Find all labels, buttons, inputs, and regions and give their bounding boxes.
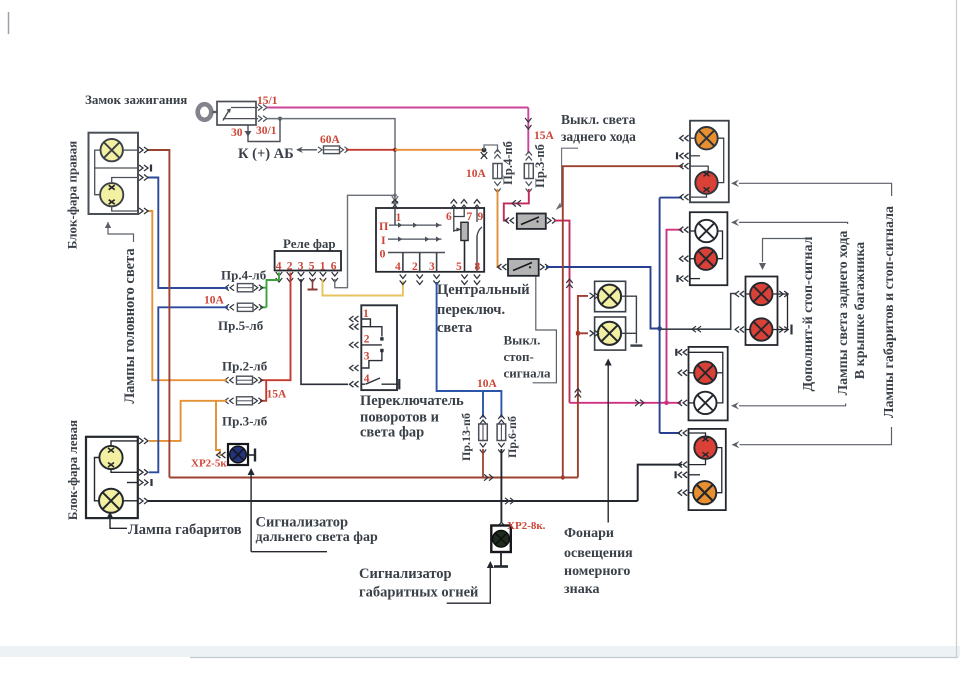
wire fuse Pr.13-pb to sidelight bus [482, 449, 484, 478]
tail3 internal wiring [689, 352, 723, 403]
svg-text:ХР2-8к.: ХР2-8к. [507, 520, 546, 532]
fuse Pr.6-pb [497, 415, 506, 454]
tail2 terminals [679, 227, 688, 282]
wire arrow to battery [296, 147, 317, 153]
column switch pin labels [363, 308, 370, 385]
wire relay pin4 green to fuses [260, 273, 279, 308]
svg-text:Пр.3-пб: Пр.3-пб [533, 144, 547, 188]
wire stop circuit vertical (blue) [657, 198, 662, 433]
tail4 internal wiring [689, 433, 722, 493]
svg-text:2: 2 [287, 260, 293, 272]
callout additional stop [759, 239, 806, 271]
fuse Pr.3-lb [225, 397, 263, 405]
tail1 stop/side lamp red [695, 171, 717, 193]
right headlamp internal wiring [95, 150, 138, 211]
svg-text:Фонари: Фонари [564, 526, 614, 541]
wire right headlamp position maroon [148, 150, 169, 478]
svg-text:4: 4 [395, 261, 401, 273]
central switch pin1 [395, 208, 402, 225]
left headlamp unit box [86, 437, 138, 518]
wire right headlamp low beam orange [148, 211, 227, 380]
svg-text:Пр.13-пб: Пр.13-пб [459, 413, 473, 461]
fuse 60A body [318, 146, 349, 154]
callout reverse lamps bottom [731, 402, 846, 409]
callout side-stop top [731, 180, 892, 196]
wire fuse Pr.6-pb down to indicator [500, 449, 502, 522]
wire +30 to lighting fuse (orange) [395, 149, 484, 151]
relay pin5 stub [308, 279, 318, 290]
position lamp pointer [110, 517, 127, 528]
svg-text:6: 6 [331, 260, 337, 272]
tail lamp unit 2 (left, in trunk lid) [690, 212, 728, 285]
reverse lamp feed maroon vertical [563, 166, 683, 477]
tail lamp unit 4 (right, in wing) [689, 429, 726, 510]
wire 30/1 gray feed to central switch pin 1 [267, 119, 395, 206]
tail4 terminals [678, 430, 687, 496]
wire stop to left tail lamp (blue) [660, 197, 682, 199]
licence plate lamp 1 [590, 281, 626, 311]
wire relay pin1 yellow from central switch pin4 [323, 279, 403, 296]
right headlamp dual filament lamp [100, 183, 123, 206]
svg-text:Лампы света заднего хода: Лампы света заднего хода [836, 231, 851, 396]
svg-text:Блок-фара правая: Блок-фара правая [65, 141, 80, 249]
wire fuse Pr.4-pb output (orange) down to stop switch [498, 189, 501, 267]
wire pink branch up to trunk reverse lamp [667, 230, 683, 403]
svg-text:поворотов и: поворотов и [360, 410, 439, 426]
svg-text:света: света [437, 320, 473, 336]
callout reverse lamps top [731, 219, 848, 226]
tail4 stop/side lamp red [694, 436, 716, 458]
ignition key symbol [198, 104, 217, 120]
svg-text:Переключатель: Переключатель [360, 393, 464, 409]
svg-text:освещения: освещения [564, 546, 633, 561]
wire stop switch output (blue) [546, 267, 660, 329]
ignition lock switch body [217, 102, 258, 126]
relay pin numbers [276, 260, 337, 272]
node 30/1 junction [278, 117, 282, 121]
wire to additional stop lamps [660, 294, 736, 333]
tail1 turn lamp orange [695, 127, 717, 149]
svg-text:Пр.4-лб: Пр.4-лб [221, 268, 267, 283]
wire right headlamp high beam blue [148, 178, 228, 289]
tail2 stop lamp red [695, 248, 717, 270]
svg-text:5: 5 [309, 260, 315, 272]
svg-text:Пр.5-лб: Пр.5-лб [218, 318, 264, 333]
add-stop internal wiring [746, 294, 788, 330]
fuse Pr.2-lb [225, 376, 263, 384]
wire left headlamp high beam blue [149, 307, 228, 472]
svg-text:30/1: 30/1 [256, 125, 277, 137]
central switch pin 9 and 8 [474, 200, 484, 273]
svg-text:габаритных огней: габаритных огней [359, 585, 478, 601]
svg-text:Пр.3-лб: Пр.3-лб [222, 414, 268, 429]
svg-text:7: 7 [467, 211, 473, 223]
tail2 internal wiring [690, 231, 723, 279]
svg-text:9: 9 [478, 211, 484, 223]
svg-text:10А: 10А [477, 378, 498, 390]
svg-text:4: 4 [276, 260, 282, 272]
wire relay pin2 red to fuse Pr.2-lb [260, 273, 291, 381]
wire jumper to fuse Pr.4-pb [484, 145, 498, 152]
licence plate lamp 2 [590, 317, 626, 350]
headlamp callout arrow [105, 222, 134, 242]
wire reverse lamps feed (pink) along bottom [570, 400, 682, 406]
svg-text:номерного: номерного [564, 564, 630, 579]
svg-text:Лампа габаритов: Лампа габаритов [128, 522, 242, 538]
tail lamp unit 3 (right, in trunk lid) [689, 347, 728, 421]
tail4 turn lamp orange [693, 481, 716, 504]
left headlamp position lamp [99, 489, 123, 513]
central switch pins 6 7 bracket and rheostat [446, 200, 473, 273]
fuse Pr.4-lb [225, 284, 263, 292]
svg-text:Сигнализатор: Сигнализатор [256, 515, 349, 531]
wire relay pin6 gray to +30 [335, 195, 395, 287]
svg-text:I: I [381, 233, 386, 247]
svg-text:дальнего света фар: дальнего света фар [256, 530, 378, 545]
wire red link fuse Pr.3-lb [260, 380, 266, 401]
tail3 stop lamp red [694, 362, 716, 384]
ground bus black lower [148, 498, 638, 504]
fuse Pr.4-pb (10A) [493, 150, 502, 193]
wire stop to right tail lamp (blue) [660, 432, 680, 434]
central switch pin1 terminal [392, 200, 398, 210]
left headlamp terminals [139, 438, 148, 504]
svg-text:2: 2 [364, 334, 370, 346]
svg-text:3: 3 [429, 261, 435, 273]
svg-text:15А: 15А [534, 130, 555, 142]
wire reverse switch output (crimson) [554, 221, 570, 403]
svg-text:10А: 10А [466, 168, 487, 180]
left headlamp internal wiring [95, 441, 138, 501]
svg-text:В крышке багажника: В крышке багажника [853, 242, 868, 379]
licence plate lamps callout [605, 359, 612, 523]
svg-text:переключ.: переключ. [437, 302, 505, 318]
svg-text:3: 3 [298, 260, 304, 272]
left headlamp dual filament lamp [99, 446, 122, 469]
column switch (turn/headlight) body [361, 305, 397, 390]
central switch row P [379, 219, 442, 233]
column switch terminals [350, 316, 359, 387]
svg-text:знака: знака [564, 582, 600, 597]
svg-text:Дополнит-й стоп-сигнал: Дополнит-й стоп-сигнал [801, 236, 816, 391]
scan artifact band bottom [0, 646, 960, 657]
svg-text:Выкл.: Выкл. [504, 333, 541, 348]
svg-text:К (+) АБ: К (+) АБ [238, 146, 294, 162]
sidelight indicator XP2-8k [491, 522, 511, 567]
svg-text:30: 30 [231, 127, 243, 139]
fuse Pr.5-lb [225, 303, 263, 311]
svg-text:Пр.6-пб: Пр.6-пб [505, 416, 519, 458]
central switch row I [381, 233, 442, 247]
right headlamp terminals [139, 147, 148, 214]
svg-text:Блок-фара левая: Блок-фара левая [65, 420, 80, 520]
svg-text:1: 1 [363, 308, 369, 320]
relay pin3 wire to column switch [301, 279, 348, 384]
svg-text:2: 2 [412, 261, 418, 273]
wire ground bus riser to tail4 [638, 465, 682, 501]
node +30 upper junction [393, 194, 397, 198]
svg-text:заднего хода: заднего хода [561, 129, 636, 144]
wire 15/1 magenta drop to fuse Pr.3-pb [525, 108, 531, 154]
svg-text:10А: 10А [204, 295, 225, 307]
relay Rele far body [275, 251, 341, 271]
licence plate lamps ground [621, 296, 642, 345]
svg-text:Сигнализатор: Сигнализатор [359, 566, 452, 582]
high beam indicator XP2-5k [217, 444, 256, 465]
node fuse tap with connector [481, 148, 487, 159]
svg-text:сигнала: сигнала [504, 366, 552, 381]
svg-text:1: 1 [320, 260, 326, 272]
tail2 reverse lamp white [695, 220, 717, 242]
wire orange branch to high-beam indicator [216, 401, 220, 455]
wire central pin3 blue to fuses [437, 282, 502, 418]
svg-text:1: 1 [396, 212, 402, 224]
stop switch label bracket [533, 277, 557, 383]
reverse light switch SA [505, 214, 556, 229]
right headlamp high beam lamp [101, 139, 123, 161]
wire 30 loop to 30/1 [245, 119, 281, 142]
svg-text:60А: 60А [320, 134, 341, 146]
right headlamp unit box [89, 133, 139, 214]
tail lamp unit 1 (left, in wing) [690, 121, 729, 203]
add-stop lamp 2 [750, 318, 772, 340]
svg-text:5: 5 [456, 261, 462, 273]
wire blue branch to fuse Pr.13-pb [482, 391, 484, 418]
add-stop terminals [735, 291, 788, 333]
sidelight bus maroon [169, 474, 578, 480]
svg-text:Лампы головного света: Лампы головного света [122, 248, 138, 404]
central switch pins 4 2 3 [395, 253, 437, 273]
svg-text:15/1: 15/1 [257, 95, 278, 107]
wire fuse Pr.3-lb orange to left headlamp [149, 401, 227, 441]
svg-text:Пр.2-лб: Пр.2-лб [222, 359, 268, 374]
svg-text:П: П [379, 219, 389, 233]
tail3 terminals [678, 349, 687, 406]
svg-text:6: 6 [446, 211, 452, 223]
svg-text:Пр.4-пб: Пр.4-пб [501, 141, 515, 185]
licence plate lamp feed maroon [575, 296, 588, 478]
svg-text:0: 0 [380, 247, 386, 261]
svg-text:Центральный: Центральный [437, 282, 530, 298]
fuse Pr.3-pb (reverse lights) [524, 152, 533, 193]
svg-text:Замок зажигания: Замок зажигания [85, 92, 187, 107]
svg-text:Реле фар: Реле фар [283, 236, 336, 251]
add-stop lamp 1 [750, 283, 772, 305]
column switch internal ladder [361, 319, 398, 384]
stop signal switch [498, 259, 550, 276]
wire Pr.3-pb to reverse switch (crimson) [504, 189, 529, 221]
svg-text:стоп-: стоп- [504, 349, 534, 364]
tail3 reverse lamp white [694, 392, 716, 414]
callout side-stop bottom [732, 427, 892, 448]
wire 15/1 magenta to reverse-light fuse [267, 107, 528, 109]
svg-text:Выкл. света: Выкл. света [561, 112, 636, 127]
tail1 internal wiring [690, 138, 724, 197]
sidelight indicator callout [447, 561, 494, 603]
additional stop signal unit [746, 277, 778, 346]
node +30 junction [393, 148, 397, 152]
svg-text:света фар: света фар [360, 425, 424, 441]
central switch row 0 [380, 247, 446, 261]
terminal 15/1 connector [258, 105, 267, 111]
svg-text:ХР2-5к: ХР2-5к [191, 458, 227, 470]
svg-text:15А: 15А [267, 389, 288, 401]
fuse Pr.13-pb [479, 415, 488, 454]
svg-text:8: 8 [475, 261, 481, 273]
wire 60A fuse to +30 node (red) [346, 149, 395, 151]
callout line to reverse switch [556, 148, 578, 210]
connector on reverse feed [566, 279, 572, 288]
central light switch body [376, 208, 484, 272]
high beam indicator callout [248, 468, 327, 552]
terminal 30/1 connector [258, 116, 267, 122]
tail1 terminals [680, 135, 689, 200]
central switch bottom terminals [400, 275, 481, 285]
relay pin terminals [276, 272, 338, 282]
svg-text:Лампы габаритов и стоп-сигнала: Лампы габаритов и стоп-сигнала [882, 206, 897, 418]
